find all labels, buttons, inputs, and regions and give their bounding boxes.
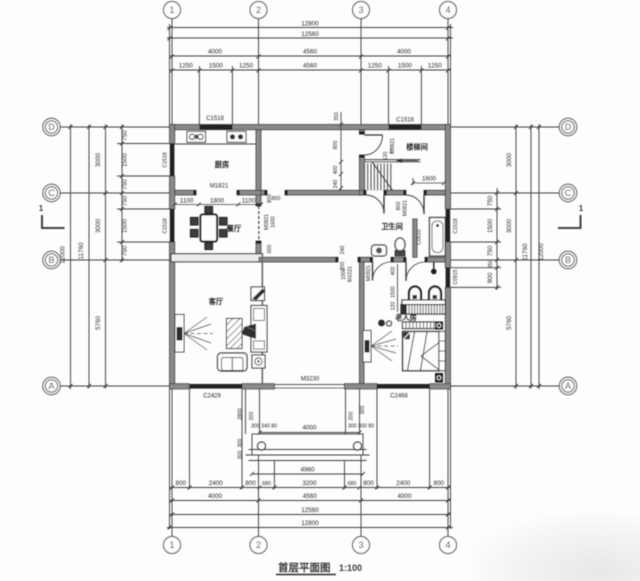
dining table: [201, 215, 218, 242]
axis line D left: [60, 126, 170, 128]
svg-text:4000: 4000: [208, 493, 223, 500]
left exterior wall between windows: [170, 176, 175, 209]
porch column left: [258, 442, 266, 450]
living sofa: [218, 353, 248, 371]
bedroom basin chair right: [429, 287, 441, 300]
axis bubble 4 bottom: [440, 537, 457, 554]
bedroom dim chain line: [397, 264, 399, 312]
svg-text:3200: 3200: [302, 480, 317, 487]
svg-text:1100: 1100: [180, 198, 194, 205]
svg-text:C2466: C2466: [390, 394, 408, 400]
dining east door dashed leaf: [258, 206, 260, 241]
door opening M1821 kitchen jamb lines: [195, 190, 197, 195]
svg-text:3000: 3000: [95, 153, 102, 168]
svg-text:M1821: M1821: [210, 184, 229, 190]
svg-text:750: 750: [122, 195, 129, 206]
svg-text:1100: 1100: [242, 198, 256, 205]
axis bubble 2 bottom: [250, 537, 267, 554]
stair landing edge double line: [364, 159, 420, 161]
bottom exterior wall seg between entry and C2466: [345, 384, 378, 389]
svg-text:C1518: C1518: [396, 118, 414, 124]
axis 3 extension line top: [360, 19, 362, 125]
interior wall axis C hall right of opening: [285, 190, 361, 195]
bath door2 leaf: [423, 195, 425, 214]
bedroom wall lamp with rays: [363, 331, 371, 363]
svg-text:300 300 80: 300 300 80: [348, 424, 374, 430]
bath door1 leaf: [383, 195, 385, 214]
svg-text:4: 4: [445, 540, 450, 550]
kitchen stove unit: [227, 131, 246, 142]
axis line B right: [451, 259, 560, 261]
svg-text:4000: 4000: [208, 49, 223, 56]
svg-text:12560: 12560: [301, 31, 319, 38]
svg-text:11760: 11760: [78, 242, 85, 260]
hall vertical dim chain line: [340, 112, 342, 190]
svg-text:厨房: 厨房: [215, 160, 229, 169]
jamb caps bath door2: [403, 190, 406, 195]
jamb caps stair door: [359, 131, 364, 134]
svg-text:B: B: [565, 255, 571, 265]
dining chair left lower: [191, 230, 199, 238]
svg-text:800: 800: [272, 196, 281, 202]
svg-text:120: 120: [391, 302, 397, 311]
porch side wall left inner: [259, 389, 261, 434]
svg-text:1250: 1250: [179, 63, 194, 70]
svg-text:3000: 3000: [506, 153, 513, 168]
svg-text:680: 680: [262, 481, 271, 487]
top exterior wall: [170, 125, 451, 130]
axis line A right: [451, 385, 560, 387]
bedroom door2 arc: [406, 262, 425, 281]
kitchen sink unit: [187, 131, 206, 142]
svg-text:12000: 12000: [60, 246, 67, 264]
dimension line 11760 left: [88, 125, 90, 389]
svg-text:1: 1: [169, 540, 174, 550]
interior wall hall south between M1021 and bedroom door: [358, 257, 373, 262]
jamb caps hall opening: [264, 190, 267, 195]
svg-text:300 340 80: 300 340 80: [251, 424, 277, 430]
svg-text:12560: 12560: [301, 507, 319, 514]
axis 4 extension line bottom: [447, 389, 449, 536]
svg-text:750: 750: [122, 179, 129, 190]
dimension line 3000/3000/5760 left: [105, 125, 107, 389]
svg-text:C1518: C1518: [206, 116, 224, 122]
living TV cabinet: [251, 306, 267, 353]
svg-text:餐厅: 餐厅: [226, 224, 241, 233]
svg-text:楼梯间: 楼梯间: [406, 143, 428, 152]
kitchen counter edge: [175, 143, 256, 145]
svg-text:C1518: C1518: [163, 152, 169, 167]
svg-text:老人房: 老人房: [394, 313, 417, 322]
svg-text:2400: 2400: [396, 480, 411, 487]
svg-text:C: C: [48, 188, 55, 198]
dimension line 11760 right: [530, 125, 532, 389]
svg-text:300: 300: [238, 439, 244, 448]
svg-text:B: B: [48, 255, 54, 265]
right exterior wall upper segment: [445, 125, 450, 210]
svg-text:1250: 1250: [239, 63, 254, 70]
axis 2 extension line top: [258, 19, 260, 125]
interior wall axis C hall left of opening: [261, 190, 267, 195]
svg-text:240: 240: [340, 246, 346, 255]
dimension line 12800 bottom: [167, 527, 453, 529]
svg-text:C1518: C1518: [163, 218, 169, 233]
dining chair right upper: [220, 218, 228, 226]
bedroom door2 leaf: [405, 262, 407, 281]
living wall unit with rays: [175, 315, 184, 353]
porch side wall left outer: [245, 389, 247, 434]
bath door1 arc: [366, 195, 384, 214]
bottom exterior wall left corner segment: [170, 384, 190, 389]
svg-text:750: 750: [122, 245, 129, 256]
svg-text:2: 2: [256, 5, 261, 15]
axis bubble 1 top: [164, 2, 181, 19]
svg-text:首层平面图: 首层平面图: [278, 561, 331, 574]
svg-text:C2429: C2429: [203, 394, 221, 400]
svg-text:3000: 3000: [506, 219, 513, 234]
svg-text:200: 200: [349, 412, 355, 421]
dimension line 12000 right: [538, 124, 540, 389]
dining chair top: [205, 207, 213, 214]
bedroom headboard strip: [403, 322, 441, 329]
axis bubble C left outer: [43, 184, 60, 201]
dimension line 4960: [252, 473, 363, 475]
window C1518 left wall dining: [170, 209, 175, 242]
svg-text:12800: 12800: [301, 21, 319, 28]
svg-text:800: 800: [434, 480, 445, 487]
jamb caps bath door1: [363, 190, 366, 195]
interior wall living east (axis 3): [359, 262, 364, 384]
svg-text:1500: 1500: [122, 153, 129, 168]
svg-text:12800: 12800: [301, 520, 319, 527]
svg-text:3: 3: [358, 5, 363, 15]
stair break diagonal: [372, 162, 393, 191]
svg-text:3: 3: [358, 540, 363, 550]
window C1518 top wall kitchen: [199, 125, 232, 130]
svg-text:350: 350: [488, 260, 494, 269]
living speaker box top: [251, 287, 265, 301]
washbasin: [372, 245, 387, 256]
axis bubble B right: [559, 251, 576, 268]
svg-text:M0821: M0821: [403, 200, 409, 216]
svg-text:4960: 4960: [300, 467, 315, 474]
dimension line window splits left: [121, 125, 123, 263]
axis bubble 3 top: [353, 2, 370, 19]
svg-text:800: 800: [175, 480, 186, 487]
porch slab: [252, 434, 363, 455]
svg-text:120: 120: [383, 152, 389, 161]
svg-text:200: 200: [249, 412, 255, 421]
living coffee table hatched: [227, 319, 243, 349]
tick marks right dims: [495, 125, 541, 388]
stair direction arrow: [398, 160, 418, 162]
axis bubble D right: [559, 118, 576, 135]
svg-text:750: 750: [122, 130, 129, 141]
svg-text:2400: 2400: [209, 480, 224, 487]
axis 1 extension line top: [171, 19, 173, 125]
dimension line 800-2400-800-680-3200-680-800-2400-800: [170, 487, 451, 489]
svg-text:1250: 1250: [368, 63, 383, 70]
tick extension lines bottom: [189, 389, 191, 489]
interior wall kitchen east lower: [256, 241, 261, 256]
section cut marker left: [39, 204, 65, 228]
svg-text:M0821: M0821: [264, 214, 270, 230]
bedroom door1 arc: [373, 262, 392, 281]
interior wall hall south left segment: [259, 257, 338, 262]
interior wall hall south right segment: [425, 257, 445, 262]
jamb caps bedroom door2: [403, 257, 406, 262]
porch side wall right outer: [359, 389, 361, 434]
right exterior wall lower segment: [445, 287, 450, 388]
axis bubble D left outer: [43, 118, 60, 135]
dining chair left upper: [191, 218, 199, 226]
jamb caps kitchen door M1821: [193, 190, 196, 195]
svg-text:1: 1: [169, 5, 174, 15]
bottom exterior wall right corner segment: [430, 384, 451, 389]
svg-text:1600: 1600: [271, 216, 277, 228]
svg-text:客厅: 客厅: [208, 297, 223, 306]
dimension line 1250 splits top: [170, 69, 451, 71]
svg-text:300: 300: [238, 451, 244, 460]
svg-text:C0915: C0915: [453, 269, 459, 284]
bedroom door1 leaf: [372, 262, 374, 281]
svg-text:800: 800: [245, 480, 256, 487]
svg-text:11760: 11760: [522, 243, 529, 261]
porch dim 4000 line: [260, 432, 360, 434]
window split tick extension lines right: [451, 208, 502, 210]
axis bubble 4 top: [440, 2, 457, 19]
entry opening M3230 sill lines: [274, 384, 344, 386]
interior wall axis C stair to bath left of door1: [359, 190, 366, 195]
svg-text:600: 600: [267, 245, 273, 254]
wall face extension lines top: [169, 24, 171, 125]
axis 2 extension line bottom: [258, 455, 260, 536]
interior wall stair room west upper stub: [359, 130, 364, 135]
axis line C right: [451, 192, 560, 194]
tick marks left dims: [69, 125, 125, 388]
interior wall axis C kitchen right of door: [237, 190, 261, 195]
svg-text:C: C: [565, 188, 572, 198]
svg-text:400: 400: [391, 267, 397, 276]
porch column right: [354, 442, 362, 450]
dimension line 12560 top: [167, 37, 453, 39]
bed drape lines: [408, 332, 415, 371]
jamb caps bedroom door1: [370, 257, 373, 262]
left exterior wall lower segment: [170, 242, 175, 389]
door jambs M1021: [337, 257, 339, 262]
svg-text:1: 1: [39, 204, 44, 213]
bed corner fold: [403, 332, 410, 339]
bedroom bed: [403, 332, 439, 371]
porch side wall right inner: [345, 389, 347, 434]
svg-text:M1021: M1021: [348, 266, 354, 282]
corner shading bottom right: [0, 0, 1, 1]
svg-text:4560: 4560: [303, 49, 318, 56]
stair room door leaf: [364, 134, 382, 136]
axis 3 extension line bottom: [360, 455, 362, 536]
window C1518 left wall kitchen: [170, 144, 175, 177]
living speaker box bottom: [252, 355, 265, 368]
bottom exterior wall seg between C2429 and entry: [242, 384, 274, 389]
svg-text:4000: 4000: [397, 493, 412, 500]
window C2466 bottom wall bedroom: [377, 384, 430, 389]
interior wall axis C right of door2: [424, 190, 445, 195]
svg-text:4560: 4560: [303, 493, 318, 500]
svg-text:A: A: [565, 381, 571, 391]
bedroom pendant lamp: [433, 262, 435, 269]
window C1518 top wall stair: [389, 125, 422, 130]
axis bubble 2 top: [250, 2, 267, 19]
svg-text:240: 240: [333, 180, 339, 189]
bedroom ceiling lamp: [378, 320, 385, 327]
porch step line 3: [249, 460, 367, 462]
svg-text:900: 900: [487, 272, 494, 283]
interior wall axis C between bath doors: [384, 190, 406, 195]
svg-text:680: 680: [348, 481, 357, 487]
svg-text:800: 800: [333, 141, 339, 150]
svg-text:2: 2: [256, 540, 261, 550]
axis bubble A right: [559, 377, 576, 394]
svg-text:1600: 1600: [422, 176, 437, 183]
svg-text:12000: 12000: [538, 243, 545, 261]
bathtub: [430, 218, 446, 257]
axis line C left: [60, 192, 170, 194]
svg-text:4560: 4560: [303, 63, 318, 70]
interior wall stair room west below door: [359, 155, 364, 195]
dimension line 12800 top: [167, 27, 453, 29]
bedroom nightstand bottom right: [435, 373, 443, 383]
svg-text:1: 1: [579, 204, 584, 213]
left exterior wall upper segment: [170, 125, 175, 144]
svg-text:300: 300: [360, 406, 366, 415]
svg-text:A: A: [48, 381, 54, 391]
svg-text:200: 200: [340, 262, 346, 271]
svg-text:4000: 4000: [302, 425, 317, 432]
dining chair right lower: [220, 230, 228, 238]
svg-text:D: D: [565, 122, 572, 132]
axis bubble 1 bottom: [164, 537, 181, 554]
svg-text:卫生间: 卫生间: [381, 222, 403, 231]
axis 1 extension line bottom: [171, 389, 173, 536]
svg-text:5760: 5760: [95, 316, 102, 331]
svg-text:750: 750: [487, 245, 494, 256]
svg-text:1800: 1800: [210, 198, 225, 205]
axis bubble B left outer: [43, 251, 60, 268]
interior wall kitchen east upper: [256, 130, 261, 206]
dimension line 4000/4560/4000 bottom: [170, 500, 451, 502]
porch step line 1: [249, 449, 367, 451]
svg-text:M0921: M0921: [366, 265, 372, 281]
svg-text:1500: 1500: [122, 219, 129, 234]
interior wall axis C kitchen left of door: [175, 190, 196, 195]
svg-text:C1518: C1518: [453, 218, 459, 233]
svg-text:1500: 1500: [398, 63, 413, 70]
svg-text:3000: 3000: [95, 219, 102, 234]
svg-text:2800: 2800: [238, 408, 244, 420]
bath door2 arc: [406, 195, 424, 214]
window C0915 right wall bedroom: [446, 268, 451, 288]
window C1518 right wall bath: [446, 209, 451, 242]
interior wall bathroom partition: [413, 219, 417, 257]
porch step line 2: [246, 454, 370, 456]
dimension line 12560 bottom: [170, 514, 451, 516]
svg-text:1500: 1500: [391, 286, 397, 298]
window C2429 bottom wall living: [190, 384, 243, 389]
window split tick extension lines left: [117, 143, 170, 145]
axis line B left: [60, 259, 170, 261]
living TV set: [242, 324, 257, 340]
axis bubble A left outer: [43, 377, 60, 394]
section cut marker right: [558, 204, 584, 228]
dimension line 3000/3000/5760 right: [515, 125, 517, 389]
axis line A left: [60, 385, 170, 387]
stair room door arc: [364, 135, 382, 155]
wall face extension lines bottom: [169, 389, 171, 529]
jamb caps M1021: [335, 257, 338, 262]
svg-text:C0510: C0510: [417, 229, 423, 244]
axis line D right: [451, 126, 560, 128]
svg-text:800: 800: [396, 202, 402, 211]
svg-text:4000: 4000: [397, 49, 412, 56]
right exterior wall between windows: [445, 242, 450, 268]
jamb caps dining door: [256, 203, 261, 206]
svg-text:D: D: [48, 122, 55, 132]
dim line 1100/1800/1100 dining top: [173, 203, 263, 207]
svg-text:1500: 1500: [209, 63, 224, 70]
drawing title: [276, 561, 362, 575]
axis bubble C right: [559, 184, 576, 201]
partition living room east screen: [262, 255, 264, 384]
toilet: [395, 238, 405, 256]
svg-text:1250: 1250: [428, 63, 443, 70]
svg-text:M3230: M3230: [301, 377, 320, 383]
svg-text:1:100: 1:100: [339, 563, 362, 573]
svg-text:400: 400: [333, 166, 339, 175]
svg-text:1500: 1500: [487, 219, 494, 234]
dimension line 12000 left: [70, 124, 72, 389]
svg-text:350: 350: [334, 112, 340, 121]
bedroom nightstand top right: [435, 322, 443, 330]
bedroom wardrobe hatched: [401, 305, 445, 314]
axis 4 extension line top: [447, 19, 449, 125]
bedroom basin chair left: [409, 287, 421, 300]
bed side shelf: [439, 332, 445, 371]
window extension lines top: [198, 66, 200, 125]
svg-text:800: 800: [363, 480, 374, 487]
interior wall dining south (axis B): [171, 254, 263, 262]
bedroom dresser counter band: [402, 300, 445, 305]
dim 1600 stair: [411, 178, 446, 185]
svg-text:750: 750: [487, 195, 494, 206]
svg-text:4: 4: [445, 5, 450, 15]
dining chair bottom: [205, 243, 213, 250]
dimension line window splits right: [496, 188, 498, 290]
tick marks top dims: [168, 26, 451, 73]
interior wall hall south between bedroom doors: [391, 257, 406, 262]
axis bubble 3 bottom: [353, 537, 370, 554]
dimension line 4000/4560/4000 top: [170, 55, 451, 57]
svg-text:M0821: M0821: [390, 138, 396, 154]
svg-text:5760: 5760: [506, 316, 513, 331]
stair treads: [364, 164, 390, 191]
